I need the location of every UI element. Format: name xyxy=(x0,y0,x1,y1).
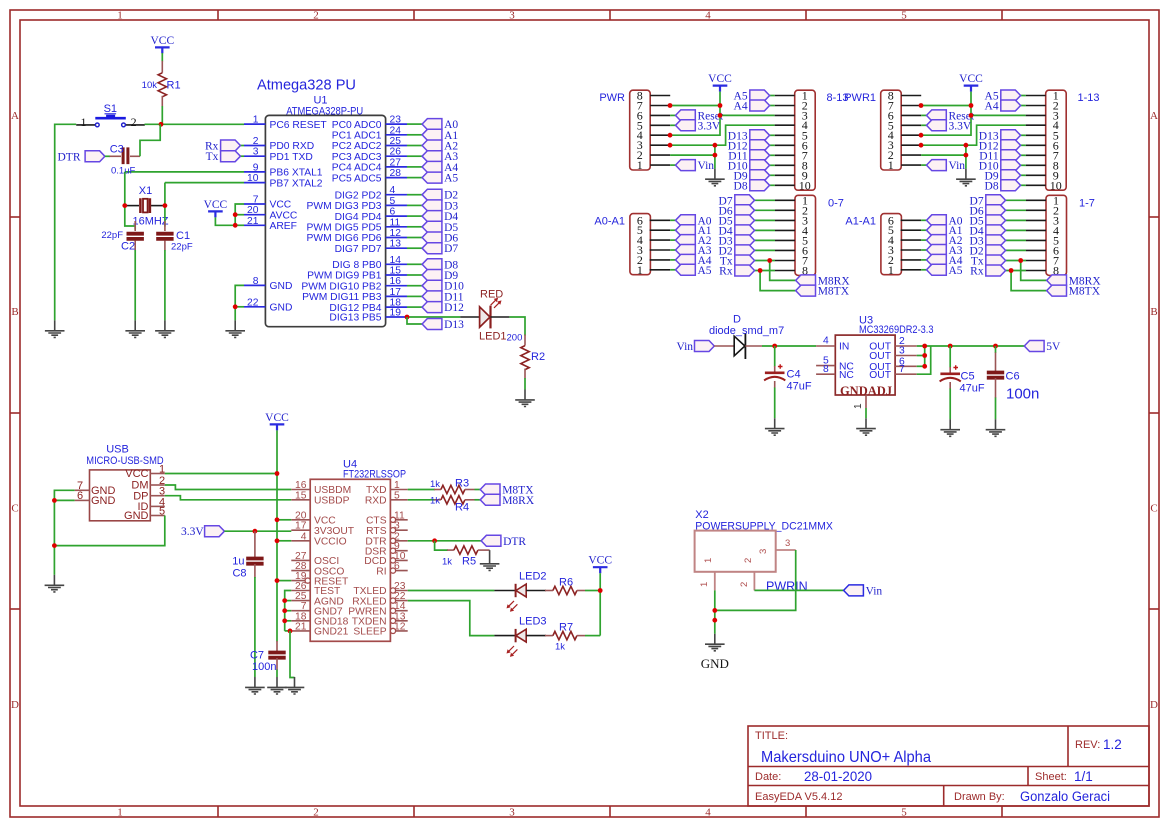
svg-text:USBDP: USBDP xyxy=(314,496,350,507)
net flag D12 xyxy=(728,140,770,153)
svg-text:4: 4 xyxy=(705,807,711,819)
svg-text:D8: D8 xyxy=(985,180,999,192)
wire C7 top lead xyxy=(276,641,278,652)
svg-text:3: 3 xyxy=(758,549,769,554)
wire C4 to ground xyxy=(774,388,776,419)
junction GND xyxy=(52,543,57,548)
svg-text:RED: RED xyxy=(480,289,503,301)
ground (USB) xyxy=(45,575,65,592)
ground (U3) xyxy=(856,418,876,435)
wire 1-13 pin stubs xyxy=(1026,96,1046,186)
junction xyxy=(713,153,718,158)
wire VCC to AREF/AVCC xyxy=(215,217,235,225)
junction D13 node xyxy=(405,315,410,320)
svg-text:2: 2 xyxy=(253,136,259,147)
wire 5V output rail xyxy=(917,345,1025,347)
net flag D3 xyxy=(970,235,1006,248)
wire Rx flag to header xyxy=(1006,270,1026,272)
svg-text:GND: GND xyxy=(91,495,116,507)
net flag D10 xyxy=(422,280,464,293)
wire to A2 flag xyxy=(921,239,926,241)
net flag 3.3V xyxy=(927,120,972,133)
svg-text:PWM DIG3 PD3: PWM DIG3 PD3 xyxy=(307,201,382,212)
wire USB GND6 xyxy=(54,499,74,501)
ground (header) xyxy=(956,169,976,186)
svg-text:1-7: 1-7 xyxy=(1079,197,1095,209)
wire RXD to R4 xyxy=(408,499,435,501)
wire USB DM to USBDM xyxy=(165,485,291,490)
svg-text:GND: GND xyxy=(270,303,293,314)
svg-text:3: 3 xyxy=(509,807,515,819)
wire D7 flag to header xyxy=(755,199,775,201)
wire R7 to VCC xyxy=(585,635,600,637)
junction RESET node xyxy=(159,122,164,127)
wire U1 GND pin22 xyxy=(235,306,244,308)
wire pin4 to VCC xyxy=(921,115,971,135)
svg-text:1k: 1k xyxy=(430,496,440,507)
net flag D9 xyxy=(734,170,770,183)
svg-text:10: 10 xyxy=(799,178,811,192)
net flag D9 xyxy=(422,270,458,283)
net flag A3 xyxy=(676,245,712,258)
svg-text:1: 1 xyxy=(637,263,643,277)
wire VCC to pin3 of second header xyxy=(720,114,775,116)
wire PWR1 pin stubs xyxy=(901,96,921,166)
junction xyxy=(922,364,927,369)
wire D9 flag to header xyxy=(770,174,775,176)
wire Rx flag to header xyxy=(755,270,775,272)
net flag A5 xyxy=(985,90,1021,103)
svg-text:100n: 100n xyxy=(252,661,276,673)
svg-text:PB6 XTAL1: PB6 XTAL1 xyxy=(270,168,323,179)
svg-text:DIG2 PD2: DIG2 PD2 xyxy=(335,190,382,201)
wire to A0 flag xyxy=(670,219,675,221)
net flag D5 xyxy=(422,221,458,234)
wire GND net vertical xyxy=(965,145,967,169)
svg-text:10k: 10k xyxy=(142,80,158,91)
svg-text:4: 4 xyxy=(705,10,711,22)
net flag A5 xyxy=(422,172,458,185)
svg-text:B: B xyxy=(1150,306,1157,318)
svg-text:D8: D8 xyxy=(734,180,748,192)
svg-text:LED1: LED1 xyxy=(479,331,507,343)
net flag A2 xyxy=(422,140,458,153)
net flag 3.3V (output) xyxy=(181,526,224,539)
IC U4 FT232RLSSOP xyxy=(291,459,407,642)
svg-text:Atmega328 PU: Atmega328 PU xyxy=(257,78,356,94)
svg-text:3.3V: 3.3V xyxy=(181,526,204,538)
wire pin2 to GND net xyxy=(670,154,715,156)
svg-text:PWM DIG11 PB3: PWM DIG11 PB3 xyxy=(302,292,382,303)
svg-text:1k: 1k xyxy=(430,479,440,490)
wire pin6 to Reset flag xyxy=(921,114,926,116)
svg-text:16: 16 xyxy=(390,276,402,287)
net flag D5 xyxy=(970,215,1006,228)
wire pin6 to Reset flag xyxy=(670,114,675,116)
wire pin1 to Vin flag xyxy=(921,164,926,166)
svg-text:C3: C3 xyxy=(110,144,124,156)
net flag Vin (PWRIN) xyxy=(844,585,883,598)
net flag Vin xyxy=(676,160,715,173)
wire LED1 to R2 xyxy=(509,317,525,336)
wire D8 flag to header xyxy=(770,184,775,186)
svg-text:M8TX: M8TX xyxy=(1069,286,1101,298)
net flag D8 xyxy=(422,259,458,272)
junction C5 tap xyxy=(948,344,953,349)
junction VCC rail xyxy=(275,471,280,476)
ground (C8) xyxy=(245,677,265,694)
net flag D12 xyxy=(979,140,1021,153)
LED LED3 xyxy=(494,616,546,657)
svg-text:LED3: LED3 xyxy=(519,616,547,628)
wire D5 flag to header xyxy=(1006,219,1026,221)
wire 3.3V to 3V3OUT xyxy=(224,530,291,532)
svg-text:28: 28 xyxy=(390,168,402,179)
svg-text:C2: C2 xyxy=(121,241,135,253)
wire VCC stem xyxy=(970,92,972,116)
net flag D8 xyxy=(734,180,770,193)
LED LED2 xyxy=(494,571,546,612)
svg-text:R6: R6 xyxy=(559,577,573,589)
svg-text:A0-A1: A0-A1 xyxy=(594,216,625,228)
resistor R3 1k xyxy=(430,478,475,494)
svg-text:PWM DIG9 PB1: PWM DIG9 PB1 xyxy=(307,271,382,282)
net flag A0 xyxy=(676,215,712,228)
svg-text:VCC: VCC xyxy=(270,200,292,211)
junction xyxy=(969,103,974,108)
svg-text:MC33269DR2-3.3: MC33269DR2-3.3 xyxy=(859,324,934,336)
svg-text:PD1 TXD: PD1 TXD xyxy=(270,152,313,163)
wire A1-A1 pin stubs xyxy=(901,220,922,269)
wire XTAL2 down to C1 xyxy=(164,183,166,227)
junction xyxy=(668,143,673,148)
svg-text:DTR: DTR xyxy=(503,536,526,548)
wire VCC down to R7 xyxy=(599,573,601,635)
junction xyxy=(275,578,280,583)
wire RXLED to LED3 xyxy=(408,601,495,636)
svg-text:17: 17 xyxy=(295,521,307,532)
IC U1 ATMEGA328P-PU xyxy=(244,78,407,327)
net flag M8TX xyxy=(1047,285,1101,298)
net flag M8TX xyxy=(796,285,850,298)
wire to A0 flag xyxy=(921,219,926,221)
net flag M8RX xyxy=(1047,275,1102,288)
svg-text:A5: A5 xyxy=(444,173,458,185)
svg-text:C1: C1 xyxy=(176,230,190,242)
wire Tx to M8RX flag xyxy=(1021,261,1047,281)
wire VCC rail down to C7 xyxy=(276,430,278,641)
svg-text:17: 17 xyxy=(390,287,402,298)
svg-text:4: 4 xyxy=(390,185,396,196)
svg-text:21: 21 xyxy=(295,621,307,632)
wire A0-A1 pin stubs xyxy=(650,220,671,269)
junction XTAL1 / crystal xyxy=(122,203,127,208)
svg-text:DIG13 PB5: DIG13 PB5 xyxy=(329,313,381,324)
junction xyxy=(668,103,673,108)
svg-text:27: 27 xyxy=(390,157,402,168)
wire U1 to D12 flag xyxy=(407,306,422,308)
connector A1-A1 (6-pin analog header) xyxy=(845,213,901,276)
wire U1 GND pin8 to ground xyxy=(235,285,244,320)
wire R3 to M8TX xyxy=(475,489,481,491)
wire pin1 to Vin flag xyxy=(670,164,675,166)
net flag A1 xyxy=(422,129,458,142)
ground (X2) with GND label xyxy=(701,634,729,671)
wire GND net vertical xyxy=(714,145,716,169)
wire to AVCC pin20 xyxy=(235,214,244,216)
svg-text:3.3V: 3.3V xyxy=(949,120,972,132)
ground (C6) xyxy=(986,419,1006,436)
svg-text:VCCIO: VCCIO xyxy=(314,537,347,548)
VCC power flag (USB/FT232) xyxy=(265,412,289,431)
svg-text:2: 2 xyxy=(131,115,137,129)
wire D13 flag to header xyxy=(1021,134,1026,136)
wire R1 to RESET node xyxy=(161,106,163,124)
svg-text:7: 7 xyxy=(253,195,259,206)
junction xyxy=(282,608,287,613)
svg-text:6: 6 xyxy=(77,490,83,502)
connector USB MICRO-USB-SMD xyxy=(75,444,166,523)
svg-text:M8RX: M8RX xyxy=(502,495,535,507)
svg-text:Rx: Rx xyxy=(970,266,984,278)
net flag Reset xyxy=(676,110,724,123)
wire U1 to A1 flag xyxy=(407,134,422,136)
svg-text:25: 25 xyxy=(390,136,402,147)
svg-text:9: 9 xyxy=(253,162,259,173)
svg-text:C: C xyxy=(11,503,18,515)
svg-text:2: 2 xyxy=(739,582,750,587)
title block xyxy=(748,726,1149,806)
wire XTAL1 to C2 xyxy=(125,172,135,230)
wire U1 to D4 flag xyxy=(407,215,422,217)
capacitor C2 22pF xyxy=(101,221,144,253)
svg-text:1k: 1k xyxy=(555,642,565,653)
wire pin3 GND jog to second header pin4 xyxy=(670,125,775,145)
svg-text:Vin: Vin xyxy=(698,160,715,172)
svg-text:22pF: 22pF xyxy=(171,242,193,253)
wire GND bus to ground xyxy=(290,631,295,678)
ground (R5) xyxy=(480,550,500,570)
capacitor C4 47uF xyxy=(764,346,812,393)
resistor R2 200 xyxy=(507,333,546,379)
wire to A4 flag xyxy=(670,259,675,261)
svg-text:6: 6 xyxy=(390,207,396,218)
svg-text:3: 3 xyxy=(899,346,905,357)
svg-text:R5: R5 xyxy=(462,556,476,568)
wire 0-7 pin stubs xyxy=(775,200,795,270)
wire PWRIN to Vin flag xyxy=(754,589,843,591)
net flag A0 xyxy=(422,119,458,132)
wire VCC branch to pin7 xyxy=(235,204,244,225)
wire PB5 to LED1 xyxy=(407,316,460,318)
wire D3 flag to header xyxy=(1006,239,1026,241)
wire R4 to M8RX xyxy=(475,499,481,501)
net flag Rx xyxy=(719,265,754,278)
svg-text:15: 15 xyxy=(295,490,307,501)
wire U1 to A2 flag xyxy=(407,145,422,147)
net flag A5 xyxy=(676,264,712,277)
net flag 3.3V xyxy=(676,120,721,133)
junction GND pins xyxy=(233,304,238,309)
svg-text:Date:: Date: xyxy=(755,771,781,783)
LED LED1 (RED) xyxy=(460,289,509,343)
svg-text:1: 1 xyxy=(81,115,87,129)
svg-text:Makersduino UNO+ Alpha: Makersduino UNO+ Alpha xyxy=(761,749,931,766)
junction C6 tap xyxy=(993,344,998,349)
net flag D10 xyxy=(979,160,1021,173)
svg-text:Vin: Vin xyxy=(949,160,966,172)
svg-text:MICRO-USB-SMD: MICRO-USB-SMD xyxy=(86,455,163,467)
wire D11 flag to header xyxy=(1021,154,1026,156)
wire to A5 flag xyxy=(670,269,675,271)
svg-text:47uF: 47uF xyxy=(960,383,985,395)
svg-text:RTS: RTS xyxy=(366,526,387,537)
junction xyxy=(282,598,287,603)
svg-text:47uF: 47uF xyxy=(787,381,812,393)
svg-text:A5: A5 xyxy=(949,265,963,277)
connector 1-13 (10-pin header) xyxy=(1046,89,1100,193)
svg-text:21: 21 xyxy=(247,216,259,227)
junction GND xyxy=(52,498,57,503)
junction AREF tap xyxy=(233,223,238,228)
wire U1 to D6 flag xyxy=(407,237,422,239)
junction xyxy=(275,517,280,522)
net flag D8 xyxy=(985,180,1021,193)
svg-text:C8: C8 xyxy=(232,568,246,580)
net flag D11 xyxy=(979,150,1020,163)
svg-text:D13: D13 xyxy=(444,319,464,331)
svg-text:Vin: Vin xyxy=(677,341,694,353)
junction xyxy=(922,353,927,358)
svg-text:1.2: 1.2 xyxy=(1103,737,1122,752)
wire D12 flag to header xyxy=(1021,144,1026,146)
svg-text:5: 5 xyxy=(901,807,907,819)
svg-text:GND: GND xyxy=(124,510,149,522)
net flag D11 xyxy=(728,150,769,163)
wire C8 to ground xyxy=(254,577,256,677)
svg-text:GND: GND xyxy=(270,281,293,292)
wire C3 to RESET node xyxy=(140,124,160,156)
junction GND xyxy=(712,608,717,613)
wire D4 flag to header xyxy=(755,229,775,231)
svg-text:S1: S1 xyxy=(104,103,117,115)
resistor R7 1k xyxy=(545,622,585,653)
wire to AREF pin21 xyxy=(235,224,244,226)
wire C2 to ground xyxy=(134,250,136,320)
wire GND7 xyxy=(285,610,292,612)
svg-text:AVCC: AVCC xyxy=(270,210,298,221)
svg-text:VCC: VCC xyxy=(959,73,983,85)
svg-text:A: A xyxy=(11,110,19,122)
net flag D13 xyxy=(979,130,1021,143)
wire Tx flag to header xyxy=(1006,260,1026,262)
net flag D2 xyxy=(719,245,755,258)
wire TXLED to LED2 xyxy=(408,590,495,592)
net flag A4 xyxy=(734,100,770,113)
net flag D4 xyxy=(970,225,1006,238)
wire pin3 GND jog to second header pin4 xyxy=(921,125,1025,145)
svg-text:1: 1 xyxy=(117,807,123,819)
svg-text:D: D xyxy=(1150,699,1158,711)
wire Tx to M8RX flag xyxy=(770,261,796,281)
resistor R4 1k xyxy=(430,496,475,514)
junction GND net xyxy=(712,618,717,623)
wire D10 flag to header xyxy=(1021,164,1026,166)
wire to A1 flag xyxy=(921,229,926,231)
resistor R1 10k xyxy=(142,61,181,106)
net flag M8RX xyxy=(796,275,851,288)
net flag D7 xyxy=(719,195,755,208)
svg-text:24: 24 xyxy=(390,125,402,136)
net flag M8TX xyxy=(480,484,534,497)
wire Tx flag to header xyxy=(755,260,775,262)
svg-text:1: 1 xyxy=(888,263,894,277)
net flag A2 xyxy=(927,235,963,248)
net flag D9 xyxy=(985,170,1021,183)
wire A4 flag to header xyxy=(1021,105,1026,107)
svg-text:EasyEDA V5.4.12: EasyEDA V5.4.12 xyxy=(755,791,842,803)
net flag A1 xyxy=(927,225,963,238)
junction xyxy=(922,344,927,349)
svg-text:4: 4 xyxy=(301,531,307,542)
wire U1 to A0 flag xyxy=(407,123,422,125)
wire U1 to D11 flag xyxy=(407,295,422,297)
svg-text:D12: D12 xyxy=(444,302,464,314)
junction xyxy=(964,143,969,148)
svg-text:DIG4 PD4: DIG4 PD4 xyxy=(335,212,382,223)
wire C1 to ground xyxy=(164,250,166,320)
wire U1 to D8 flag xyxy=(407,263,422,265)
wire A4 flag to header xyxy=(770,105,775,107)
svg-text:PC4 ADC4: PC4 ADC4 xyxy=(332,163,382,174)
net flag D7 xyxy=(422,243,458,256)
junction xyxy=(275,538,280,543)
svg-text:3.3V: 3.3V xyxy=(698,120,721,132)
junction Rx tap xyxy=(758,268,763,273)
svg-text:SLEEP: SLEEP xyxy=(353,627,386,638)
svg-text:DTR: DTR xyxy=(58,151,81,163)
svg-text:DIG 8 PB0: DIG 8 PB0 xyxy=(332,260,381,271)
svg-text:A1-A1: A1-A1 xyxy=(845,216,876,228)
svg-text:PWRIN: PWRIN xyxy=(766,580,808,594)
IC U3 MC33269DR2-3.3 regulator xyxy=(816,315,933,410)
svg-text:3: 3 xyxy=(785,538,790,549)
svg-text:VCC: VCC xyxy=(204,199,228,211)
svg-text:OUT: OUT xyxy=(869,351,891,362)
net flag A3 xyxy=(422,151,458,164)
svg-text:11: 11 xyxy=(390,217,401,228)
ground (C5) xyxy=(940,419,960,436)
svg-text:A4: A4 xyxy=(734,101,748,113)
net flag A4 xyxy=(927,254,963,267)
svg-text:C: C xyxy=(1150,503,1157,515)
net flag Reset xyxy=(927,110,975,123)
svg-text:D: D xyxy=(11,699,19,711)
net flag D6 xyxy=(719,205,755,218)
svg-text:20: 20 xyxy=(295,510,307,521)
junction C4 tap xyxy=(772,344,777,349)
switch S1 xyxy=(76,103,145,129)
svg-text:1: 1 xyxy=(699,582,710,587)
ground (C2) xyxy=(125,320,145,337)
svg-text:VCC: VCC xyxy=(708,73,732,85)
wire D10 flag to header xyxy=(770,164,775,166)
net flag A2 xyxy=(676,235,712,248)
diode D diode_smd_m7 xyxy=(709,314,784,360)
svg-text:26: 26 xyxy=(390,147,402,158)
wire D6 flag to header xyxy=(1006,209,1026,211)
net flag D13 xyxy=(728,130,770,143)
